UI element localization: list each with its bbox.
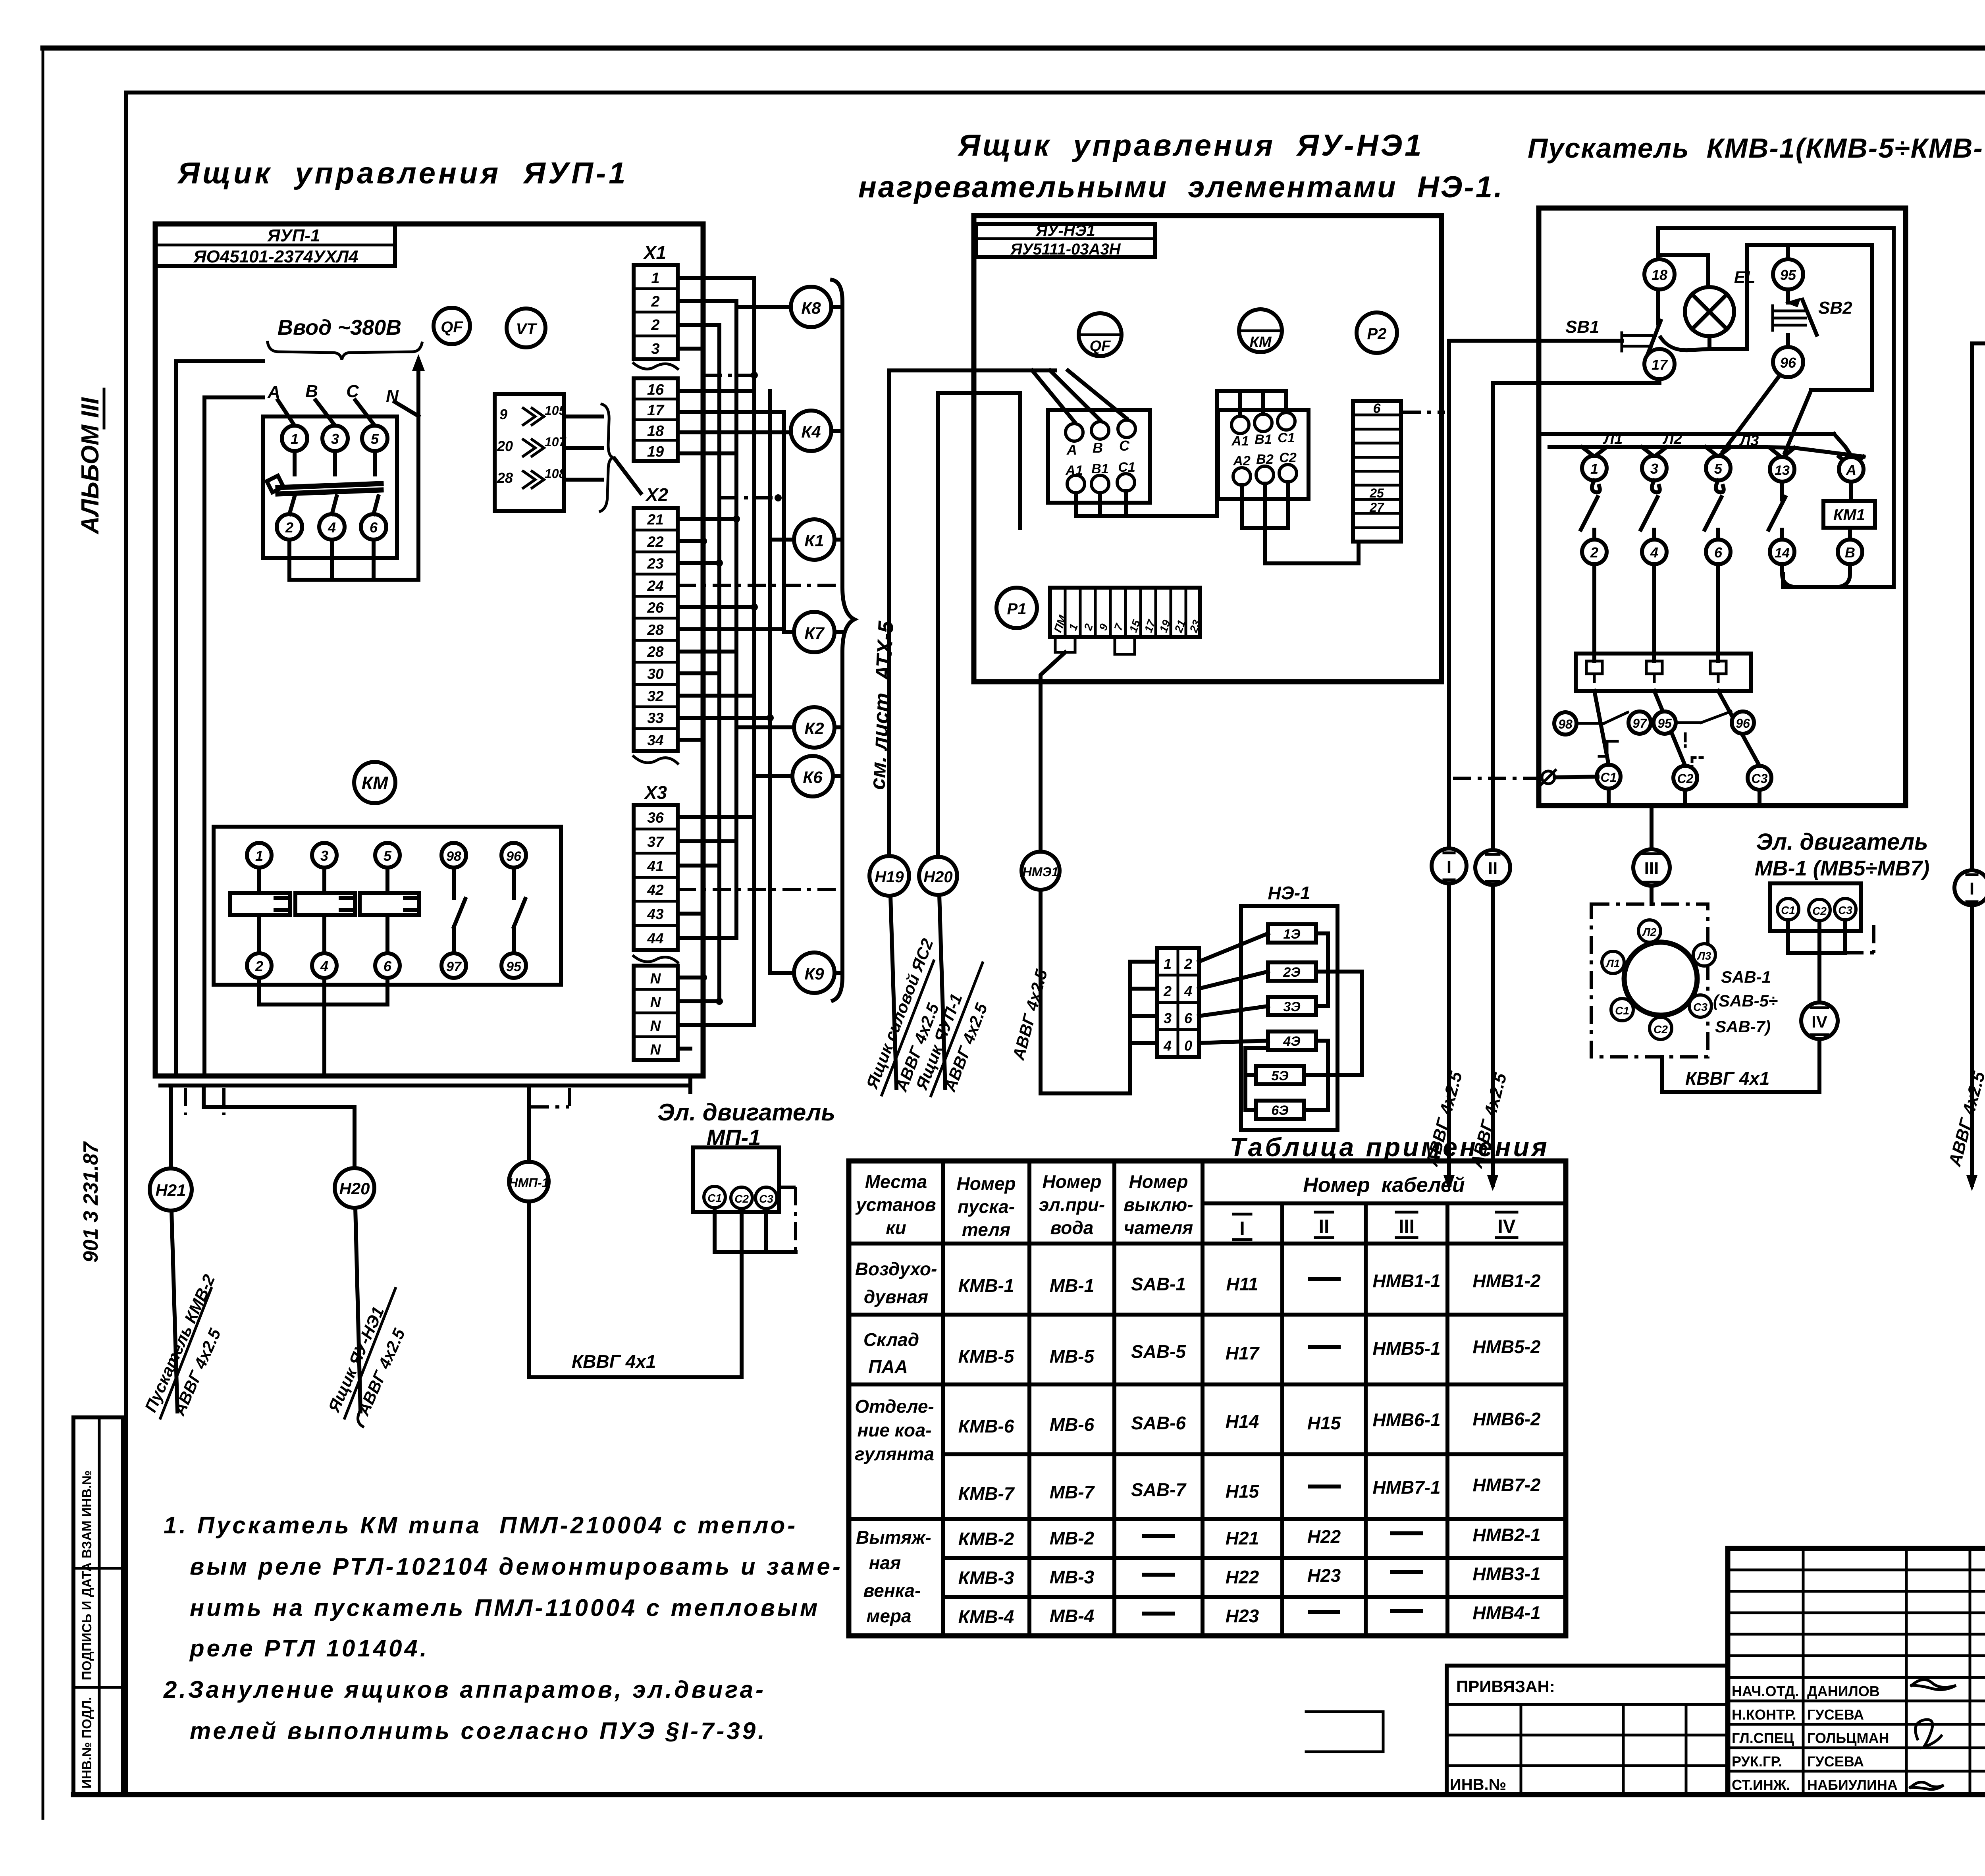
- svg-text:НМП-1: НМП-1: [509, 1176, 549, 1190]
- svg-text:33: 33: [647, 710, 664, 726]
- svg-text:2: 2: [651, 293, 659, 310]
- svg-text:теля: теля: [962, 1219, 1010, 1240]
- svg-text:2: 2: [1590, 544, 1598, 561]
- svg-text:ПРИВЯЗАН:: ПРИВЯЗАН:: [1456, 1677, 1555, 1696]
- svg-text:X2: X2: [645, 484, 669, 505]
- svg-text:1: 1: [255, 848, 263, 864]
- svg-text:С3: С3: [1693, 1001, 1707, 1013]
- svg-text:К6: К6: [803, 768, 823, 787]
- svg-text:нить на пускатель ПМЛ-110004 с: нить на пускатель ПМЛ-110004 с тепловым: [190, 1595, 820, 1621]
- svg-text:В: В: [1093, 440, 1103, 456]
- svg-text:ние коа-: ние коа-: [857, 1420, 931, 1440]
- svg-text:гулянта: гулянта: [855, 1444, 934, 1464]
- svg-text:3: 3: [1650, 461, 1658, 477]
- svg-text:18: 18: [1652, 267, 1667, 283]
- svg-text:18: 18: [647, 423, 664, 440]
- svg-text:32: 32: [647, 688, 664, 704]
- svg-text:НМВ7-1: НМВ7-1: [1372, 1477, 1440, 1498]
- svg-text:С3: С3: [1838, 904, 1852, 916]
- svg-text:АВВГ 4х2.5: АВВГ 4х2.5: [1945, 1069, 1985, 1168]
- svg-text:16: 16: [647, 382, 664, 398]
- svg-text:Л1: Л1: [1605, 957, 1620, 970]
- svg-text:Л3: Л3: [1739, 432, 1759, 449]
- svg-text:1. Пускатель КМ типа ПМЛ-2100: 1. Пускатель КМ типа ПМЛ-210004 с тепло-: [164, 1512, 798, 1539]
- svg-text:С1: С1: [1781, 904, 1795, 916]
- svg-text:4: 4: [1184, 983, 1192, 999]
- svg-text:НМВ5-2: НМВ5-2: [1472, 1336, 1541, 1357]
- svg-text:95: 95: [1780, 267, 1796, 283]
- svg-text:ГЛ.СПЕЦ: ГЛ.СПЕЦ: [1732, 1730, 1794, 1746]
- svg-text:13: 13: [1775, 463, 1790, 478]
- svg-text:44: 44: [647, 930, 663, 947]
- svg-text:Л2: Л2: [1662, 431, 1682, 447]
- svg-text:Н.КОНТР.: Н.КОНТР.: [1732, 1706, 1796, 1723]
- svg-text:НАЧ.ОТД.: НАЧ.ОТД.: [1732, 1683, 1799, 1699]
- svg-text:КМВ-1: КМВ-1: [958, 1275, 1014, 1296]
- svg-text:Н21: Н21: [1226, 1528, 1259, 1548]
- svg-text:6: 6: [1373, 401, 1381, 416]
- svg-text:ЯО45101-2374УХЛ4: ЯО45101-2374УХЛ4: [193, 247, 358, 266]
- svg-text:N: N: [650, 994, 661, 1010]
- svg-text:К7: К7: [804, 624, 825, 642]
- svg-text:С: С: [1119, 438, 1130, 454]
- svg-text:ИНВ.№ ПОДЛ.: ИНВ.№ ПОДЛ.: [79, 1697, 94, 1789]
- svg-text:VT: VT: [516, 320, 538, 338]
- svg-text:96: 96: [1736, 716, 1750, 731]
- svg-text:КМ1: КМ1: [1833, 506, 1865, 524]
- svg-text:С2: С2: [1812, 905, 1827, 917]
- svg-text:МВ-4: МВ-4: [1050, 1606, 1094, 1626]
- svg-text:5Э: 5Э: [1271, 1068, 1288, 1084]
- svg-text:SAВ-5: SAВ-5: [1131, 1341, 1186, 1362]
- svg-text:Н23: Н23: [1307, 1565, 1341, 1586]
- svg-text:SB1: SB1: [1565, 317, 1600, 337]
- svg-text:21: 21: [647, 511, 663, 528]
- svg-text:К1: К1: [804, 531, 824, 550]
- svg-text:96: 96: [506, 849, 522, 864]
- svg-text:14: 14: [1775, 546, 1790, 561]
- svg-text:КВВГ 4х1: КВВГ 4х1: [572, 1351, 656, 1372]
- svg-text:5: 5: [371, 431, 379, 447]
- svg-text:SAВ-1: SAВ-1: [1721, 968, 1771, 986]
- svg-text:3: 3: [320, 848, 328, 864]
- svg-text:1: 1: [1164, 956, 1172, 972]
- svg-text:27: 27: [1369, 500, 1385, 515]
- svg-text:НМВ6-2: НМВ6-2: [1472, 1409, 1541, 1429]
- svg-text:N: N: [650, 1018, 661, 1034]
- svg-text:НМВ1-2: НМВ1-2: [1472, 1271, 1541, 1291]
- svg-text:МВ-1 (МВ5÷МВ7): МВ-1 (МВ5÷МВ7): [1755, 856, 1930, 880]
- svg-text:С3: С3: [1752, 771, 1768, 786]
- svg-text:6: 6: [1714, 544, 1723, 561]
- svg-text:1: 1: [1067, 622, 1080, 632]
- svg-text:С1: С1: [707, 1192, 722, 1204]
- svg-text:1Э: 1Э: [1283, 927, 1300, 942]
- svg-text:20: 20: [497, 438, 513, 454]
- svg-text:НМЭ1: НМЭ1: [1023, 865, 1059, 879]
- svg-text:КМ: КМ: [1249, 334, 1272, 351]
- svg-text:МВ-7: МВ-7: [1050, 1482, 1095, 1502]
- svg-text:Н15: Н15: [1226, 1481, 1260, 1502]
- svg-text:III: III: [1399, 1216, 1415, 1237]
- svg-text:36: 36: [647, 810, 664, 826]
- svg-text:Склад: Склад: [863, 1329, 919, 1350]
- svg-text:НМВ2-1: НМВ2-1: [1472, 1525, 1540, 1545]
- svg-text:3: 3: [651, 341, 659, 357]
- svg-text:SB2: SB2: [1818, 298, 1852, 318]
- svg-text:Н20: Н20: [923, 868, 952, 886]
- svg-text:В1: В1: [1255, 432, 1272, 447]
- svg-text:РУК.ГР.: РУК.ГР.: [1732, 1753, 1782, 1770]
- svg-text:98: 98: [446, 849, 461, 864]
- svg-text:II: II: [1488, 859, 1497, 878]
- svg-text:9: 9: [1097, 622, 1111, 632]
- svg-text:С2: С2: [1677, 771, 1694, 786]
- svg-text:Н22: Н22: [1307, 1526, 1341, 1547]
- svg-text:17: 17: [1652, 357, 1668, 373]
- svg-text:26: 26: [647, 600, 664, 616]
- svg-text:венка-: венка-: [863, 1580, 921, 1601]
- svg-text:95: 95: [1657, 716, 1672, 731]
- svg-text:ДАНИЛОВ: ДАНИЛОВ: [1807, 1683, 1880, 1699]
- svg-text:КМ: КМ: [362, 773, 389, 793]
- svg-text:Л2: Л2: [1642, 926, 1657, 938]
- svg-text:телей выполнить согласно ПУЭ §: телей выполнить согласно ПУЭ §I-7-39.: [190, 1718, 767, 1744]
- svg-text:Отделе-: Отделе-: [855, 1396, 934, 1417]
- svg-text:МВ-3: МВ-3: [1050, 1567, 1095, 1587]
- svg-text:Номер: Номер: [1129, 1171, 1188, 1192]
- svg-text:чателя: чателя: [1124, 1217, 1193, 1238]
- svg-text:А: А: [1846, 462, 1856, 478]
- svg-text:НМВ1-1: НМВ1-1: [1372, 1271, 1440, 1291]
- svg-text:(SAВ-5÷: (SAВ-5÷: [1713, 991, 1778, 1010]
- svg-text:С2: С2: [1654, 1023, 1668, 1035]
- svg-text:Л3: Л3: [1697, 950, 1711, 962]
- svg-text:С1: С1: [1615, 1005, 1629, 1017]
- svg-text:КВВГ 4х1: КВВГ 4х1: [1685, 1068, 1769, 1089]
- svg-text:Эл. двигатель: Эл. двигатель: [657, 1099, 835, 1126]
- svg-text:пуска-: пуска-: [958, 1196, 1015, 1217]
- svg-text:установ: установ: [855, 1194, 936, 1215]
- svg-text:4: 4: [1163, 1037, 1172, 1054]
- svg-text:9: 9: [499, 406, 507, 422]
- svg-text:Ввод ~380В: Ввод ~380В: [278, 316, 401, 339]
- svg-text:3: 3: [331, 431, 339, 447]
- svg-text:96: 96: [1780, 355, 1796, 371]
- svg-text:Н11: Н11: [1226, 1274, 1258, 1294]
- svg-text:Места: Места: [865, 1171, 927, 1192]
- svg-text:К8: К8: [801, 299, 821, 317]
- svg-text:97: 97: [1632, 716, 1648, 731]
- svg-text:IV: IV: [1497, 1216, 1515, 1237]
- svg-text:17: 17: [647, 402, 665, 419]
- svg-text:Номер кабелей: Номер кабелей: [1303, 1174, 1465, 1197]
- svg-text:EL: EL: [1734, 268, 1756, 286]
- svg-text:С2: С2: [734, 1193, 749, 1205]
- svg-text:нагревательными элементами Н: нагревательными элементами НЭ-1.: [858, 170, 1504, 204]
- svg-text:3Э: 3Э: [1283, 999, 1300, 1014]
- svg-text:4: 4: [328, 519, 336, 536]
- svg-text:QF: QF: [441, 318, 463, 336]
- svg-text:Эл. двигатель: Эл. двигатель: [1756, 829, 1928, 855]
- svg-text:ГУСЕВА: ГУСЕВА: [1807, 1706, 1864, 1723]
- svg-text:МВ-1: МВ-1: [1050, 1275, 1094, 1296]
- svg-text:МВ-2: МВ-2: [1050, 1528, 1095, 1548]
- svg-text:2: 2: [1163, 983, 1172, 999]
- svg-text:С1: С1: [1601, 770, 1617, 785]
- svg-text:22: 22: [647, 534, 664, 550]
- svg-text:1: 1: [651, 270, 659, 287]
- svg-text:Н17: Н17: [1226, 1343, 1260, 1363]
- svg-text:Номер: Номер: [956, 1173, 1016, 1194]
- svg-text:901 3 231.87: 901 3 231.87: [79, 1141, 102, 1263]
- svg-text:СТ.ИНЖ.: СТ.ИНЖ.: [1732, 1777, 1790, 1793]
- svg-text:SAВ-6: SAВ-6: [1131, 1413, 1186, 1433]
- svg-text:SAВ-7: SAВ-7: [1131, 1479, 1187, 1500]
- svg-text:НМВ7-2: НМВ7-2: [1472, 1475, 1541, 1495]
- svg-text:28: 28: [647, 644, 664, 660]
- svg-text:Н22: Н22: [1226, 1567, 1259, 1587]
- svg-text:2.Зануление ящиков аппаратов,: 2.Зануление ящиков аппаратов, эл.двига-: [163, 1676, 766, 1703]
- svg-text:SAВ-7): SAВ-7): [1715, 1017, 1771, 1036]
- svg-text:I: I: [1447, 857, 1451, 877]
- svg-text:0: 0: [1184, 1037, 1192, 1054]
- svg-text:42: 42: [647, 882, 664, 898]
- svg-text:1: 1: [291, 431, 299, 447]
- svg-text:2: 2: [1184, 956, 1192, 972]
- svg-text:КМВ-2: КМВ-2: [958, 1529, 1014, 1549]
- svg-text:7: 7: [1112, 621, 1126, 632]
- svg-text:34: 34: [647, 732, 663, 748]
- svg-text:2Э: 2Э: [1283, 965, 1300, 980]
- svg-text:вым реле РТЛ-102104 демонтиров: вым реле РТЛ-102104 демонтировать и заме…: [190, 1553, 843, 1580]
- svg-text:Р1: Р1: [1007, 600, 1027, 618]
- svg-text:4: 4: [320, 958, 328, 974]
- svg-text:Номер: Номер: [1042, 1171, 1101, 1192]
- svg-text:мера: мера: [866, 1606, 911, 1626]
- svg-text:III: III: [1644, 859, 1659, 878]
- svg-text:см. лист АТХ-5: см. лист АТХ-5: [865, 620, 898, 791]
- svg-text:43: 43: [647, 906, 664, 922]
- svg-text:37: 37: [647, 834, 665, 850]
- svg-text:НЭ-1: НЭ-1: [1268, 883, 1310, 903]
- svg-text:КМВ-5: КМВ-5: [958, 1346, 1015, 1367]
- svg-text:X1: X1: [643, 242, 666, 263]
- svg-text:4Э: 4Э: [1283, 1034, 1300, 1049]
- svg-text:КМВ-6: КМВ-6: [958, 1416, 1014, 1436]
- svg-text:ВЗАМ ИНВ.№: ВЗАМ ИНВ.№: [79, 1470, 94, 1558]
- svg-text:КМВ-4: КМВ-4: [958, 1606, 1014, 1627]
- svg-text:К2: К2: [804, 719, 824, 738]
- svg-text:ПАА: ПАА: [868, 1356, 908, 1377]
- svg-text:ГУСЕВА: ГУСЕВА: [1807, 1753, 1864, 1770]
- svg-text:ПОДПИСЬ И ДАТА: ПОДПИСЬ И ДАТА: [79, 1562, 94, 1680]
- svg-text:I: I: [1970, 879, 1974, 898]
- svg-text:3: 3: [1164, 1010, 1172, 1026]
- svg-text:SAВ-1: SAВ-1: [1131, 1274, 1186, 1294]
- svg-text:ЯУ-НЭ1: ЯУ-НЭ1: [1035, 222, 1095, 239]
- svg-text:К9: К9: [804, 964, 824, 983]
- svg-text:Н23: Н23: [1226, 1606, 1259, 1626]
- svg-text:ИНВ.№: ИНВ.№: [1450, 1776, 1506, 1793]
- svg-text:НМВ5-1: НМВ5-1: [1372, 1338, 1440, 1359]
- svg-text:2: 2: [1081, 622, 1095, 632]
- svg-text:30: 30: [647, 666, 664, 682]
- svg-text:КМВ-7: КМВ-7: [958, 1483, 1015, 1504]
- svg-text:А: А: [1066, 442, 1077, 458]
- svg-text:Н19: Н19: [875, 868, 904, 886]
- svg-text:5: 5: [1714, 461, 1723, 477]
- svg-text:5: 5: [384, 848, 392, 864]
- svg-text:НМВ3-1: НМВ3-1: [1472, 1564, 1540, 1584]
- svg-text:X3: X3: [644, 782, 667, 803]
- svg-text:28: 28: [497, 470, 513, 486]
- svg-text:Л1: Л1: [1603, 431, 1623, 447]
- svg-text:Н20: Н20: [339, 1179, 370, 1198]
- svg-text:Н21: Н21: [155, 1181, 186, 1199]
- svg-text:41: 41: [647, 858, 663, 874]
- svg-text:QF: QF: [1090, 338, 1112, 355]
- svg-text:А1: А1: [1231, 434, 1249, 449]
- svg-text:АВВГ 4х2.5: АВВГ 4х2.5: [1009, 967, 1051, 1062]
- svg-text:С1: С1: [1278, 430, 1295, 445]
- svg-text:23: 23: [647, 555, 664, 572]
- svg-text:I: I: [1239, 1218, 1245, 1239]
- svg-text:2: 2: [285, 519, 293, 536]
- svg-text:ЯУП-1: ЯУП-1: [267, 226, 320, 245]
- svg-text:эл.при-: эл.при-: [1039, 1194, 1105, 1215]
- svg-text:дувная: дувная: [864, 1286, 928, 1307]
- svg-text:25: 25: [1369, 486, 1384, 500]
- svg-text:МВ-6: МВ-6: [1050, 1414, 1095, 1435]
- svg-text:Р2: Р2: [1367, 325, 1387, 343]
- svg-text:НМВ4-1: НМВ4-1: [1472, 1602, 1540, 1623]
- svg-text:6: 6: [384, 958, 392, 974]
- svg-text:выклю-: выклю-: [1124, 1194, 1193, 1215]
- svg-text:вода: вода: [1050, 1217, 1094, 1238]
- svg-text:2: 2: [651, 317, 659, 334]
- svg-text:6: 6: [370, 519, 378, 536]
- svg-text:реле РТЛ 101404.: реле РТЛ 101404.: [189, 1635, 429, 1662]
- svg-text:Н14: Н14: [1226, 1411, 1259, 1432]
- svg-text:Воздухо-: Воздухо-: [855, 1259, 937, 1279]
- svg-text:24: 24: [647, 578, 663, 594]
- svg-text:19: 19: [647, 443, 664, 460]
- svg-text:ГОЛЬЦМАН: ГОЛЬЦМАН: [1807, 1730, 1889, 1746]
- svg-text:6Э: 6Э: [1271, 1103, 1288, 1118]
- svg-text:28: 28: [647, 622, 664, 638]
- svg-text:98: 98: [1558, 717, 1573, 731]
- svg-text:Вытяж-: Вытяж-: [856, 1527, 931, 1548]
- svg-text:В: В: [1845, 544, 1855, 561]
- svg-text:6: 6: [1184, 1010, 1193, 1026]
- svg-text:ки: ки: [886, 1217, 906, 1238]
- svg-text:НАБИУЛИНА: НАБИУЛИНА: [1807, 1777, 1898, 1793]
- svg-text:N: N: [650, 1041, 661, 1058]
- svg-text:Пускатель КМВ-1(КМВ-5÷КМВ-7): Пускатель КМВ-1(КМВ-5÷КМВ-7): [1528, 133, 1985, 164]
- svg-text:АЛЬБОМ III: АЛЬБОМ III: [77, 397, 104, 535]
- svg-text:Ящик управления ЯУ-НЭ1: Ящик управления ЯУ-НЭ1: [958, 129, 1424, 162]
- svg-text:95: 95: [506, 959, 522, 974]
- svg-text:IV: IV: [1812, 1012, 1827, 1031]
- svg-text:ЯУ5111-03А3Н: ЯУ5111-03А3Н: [1010, 241, 1121, 258]
- svg-text:С: С: [346, 382, 359, 401]
- svg-text:N: N: [650, 970, 661, 987]
- svg-text:Н15: Н15: [1307, 1413, 1341, 1433]
- svg-text:2: 2: [255, 958, 263, 974]
- svg-text:С3: С3: [759, 1193, 773, 1205]
- svg-text:ная: ная: [869, 1552, 901, 1573]
- svg-text:Ящик управления ЯУП-1: Ящик управления ЯУП-1: [177, 156, 628, 190]
- svg-text:Таблица применения: Таблица применения: [1230, 1132, 1549, 1162]
- svg-text:4: 4: [1650, 544, 1658, 561]
- svg-text:МВ-5: МВ-5: [1050, 1346, 1095, 1367]
- svg-text:КМВ-3: КМВ-3: [958, 1568, 1014, 1588]
- svg-text:К4: К4: [801, 422, 821, 441]
- svg-text:97: 97: [446, 959, 462, 974]
- svg-text:НМВ6-1: НМВ6-1: [1372, 1409, 1440, 1430]
- svg-text:1: 1: [1590, 461, 1598, 477]
- svg-text:II: II: [1319, 1216, 1330, 1237]
